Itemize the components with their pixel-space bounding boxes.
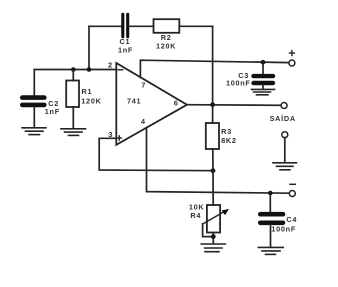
node: junction dot R1 top xyxy=(71,67,76,72)
node: junction dot C4 top xyxy=(268,191,273,196)
ground under C3 xyxy=(252,89,275,94)
wire: C2 bottom lead xyxy=(33,107,35,127)
svg-text:3: 3 xyxy=(108,130,112,139)
svg-text:120K: 120K xyxy=(81,96,101,105)
wire: pin-6 output line to SAIDA terminal xyxy=(187,104,281,107)
wire: feedback vertical x=212.6 from top rail down to output node xyxy=(212,26,214,104)
wire: R3 top lead xyxy=(212,105,214,123)
wire: R4 wiper tie to bottom xyxy=(203,224,214,237)
terminal: ground reference circle xyxy=(282,132,288,138)
op-amp U1 741 triangle xyxy=(116,63,187,145)
potentiometer R4 body xyxy=(207,205,220,233)
potentiometer R4 arrow xyxy=(203,209,229,224)
inverting input minus sign xyxy=(118,69,123,71)
capacitor C3 xyxy=(254,76,274,83)
minus sign above - terminal xyxy=(290,183,295,185)
node: junction dot R4 wiper/bottom xyxy=(211,234,216,239)
wire: pin-4 lead down and right to - terminal xyxy=(147,128,290,194)
ground under R4 xyxy=(201,244,225,252)
wire: C3 bottom stub xyxy=(262,85,264,89)
wire: pin-2 horizontal line from C2 top to op-amp xyxy=(34,69,116,71)
wire: pin-7 up and right to + terminal xyxy=(140,60,289,77)
resistor R1 xyxy=(66,81,79,108)
wire: R1 top lead xyxy=(72,70,74,81)
non-inverting input plus sign xyxy=(117,136,121,140)
svg-text:C4: C4 xyxy=(286,215,297,224)
capacitor C2 xyxy=(22,98,44,105)
wire: R4 bottom lead xyxy=(212,233,214,244)
svg-text:R1: R1 xyxy=(82,87,93,96)
svg-text:4: 4 xyxy=(141,117,146,126)
wire: top rail left segment from left vertical to C1 xyxy=(89,25,121,27)
svg-text:R4: R4 xyxy=(190,211,201,220)
svg-text:1nF: 1nF xyxy=(45,107,60,116)
ground under R1 xyxy=(61,129,86,136)
terminal: + supply circle xyxy=(289,60,295,66)
svg-text:741: 741 xyxy=(127,97,141,106)
svg-text:SAÍDA: SAÍDA xyxy=(270,114,296,123)
wire: R2 to right corner of top rail xyxy=(179,25,212,27)
terminal: SAIDA output circle xyxy=(281,103,287,109)
ground under C4 xyxy=(258,247,283,254)
capacitor C1 xyxy=(123,14,128,37)
svg-text:2: 2 xyxy=(108,61,112,70)
svg-text:100nF: 100nF xyxy=(226,79,251,88)
wire: pin-3 lead left, down and right to divider node xyxy=(99,138,213,170)
svg-text:120K: 120K xyxy=(156,42,176,51)
plus sign above + terminal xyxy=(289,51,294,56)
resistor R2 xyxy=(154,19,180,33)
wire: C4 top lead xyxy=(269,193,271,212)
svg-text:R3: R3 xyxy=(221,127,232,136)
node: junction dot C3 top xyxy=(261,60,266,65)
wire: C2 top lead xyxy=(33,70,35,96)
wire: R1 bottom lead xyxy=(72,107,74,128)
terminal: - supply circle xyxy=(289,191,295,197)
svg-text:8K2: 8K2 xyxy=(221,136,237,145)
svg-text:6: 6 xyxy=(174,98,178,107)
wire: divider node down to R4 crossing -V rail xyxy=(212,171,214,205)
wire: C1 to R2 xyxy=(130,25,154,27)
wire: ground terminal lead xyxy=(284,138,286,163)
wire: left vertical from top rail down to pin-2 node xyxy=(88,26,90,69)
node: junction dot divider node xyxy=(211,168,216,173)
node: junction dot left vertical xyxy=(87,67,92,72)
svg-text:7: 7 xyxy=(141,81,145,90)
node: junction dot output/feedback xyxy=(210,102,215,107)
svg-text:1nF: 1nF xyxy=(118,46,133,55)
capacitor C4 xyxy=(260,214,283,223)
wire: C3 top lead xyxy=(262,62,264,74)
resistor R3 xyxy=(206,123,219,149)
ground under terminal xyxy=(273,163,297,170)
ground under C2 xyxy=(22,128,46,135)
svg-text:100nF: 100nF xyxy=(271,225,296,234)
wire: C4 bottom lead xyxy=(270,225,272,247)
wire: R3 bottom lead to divider node xyxy=(212,149,214,171)
